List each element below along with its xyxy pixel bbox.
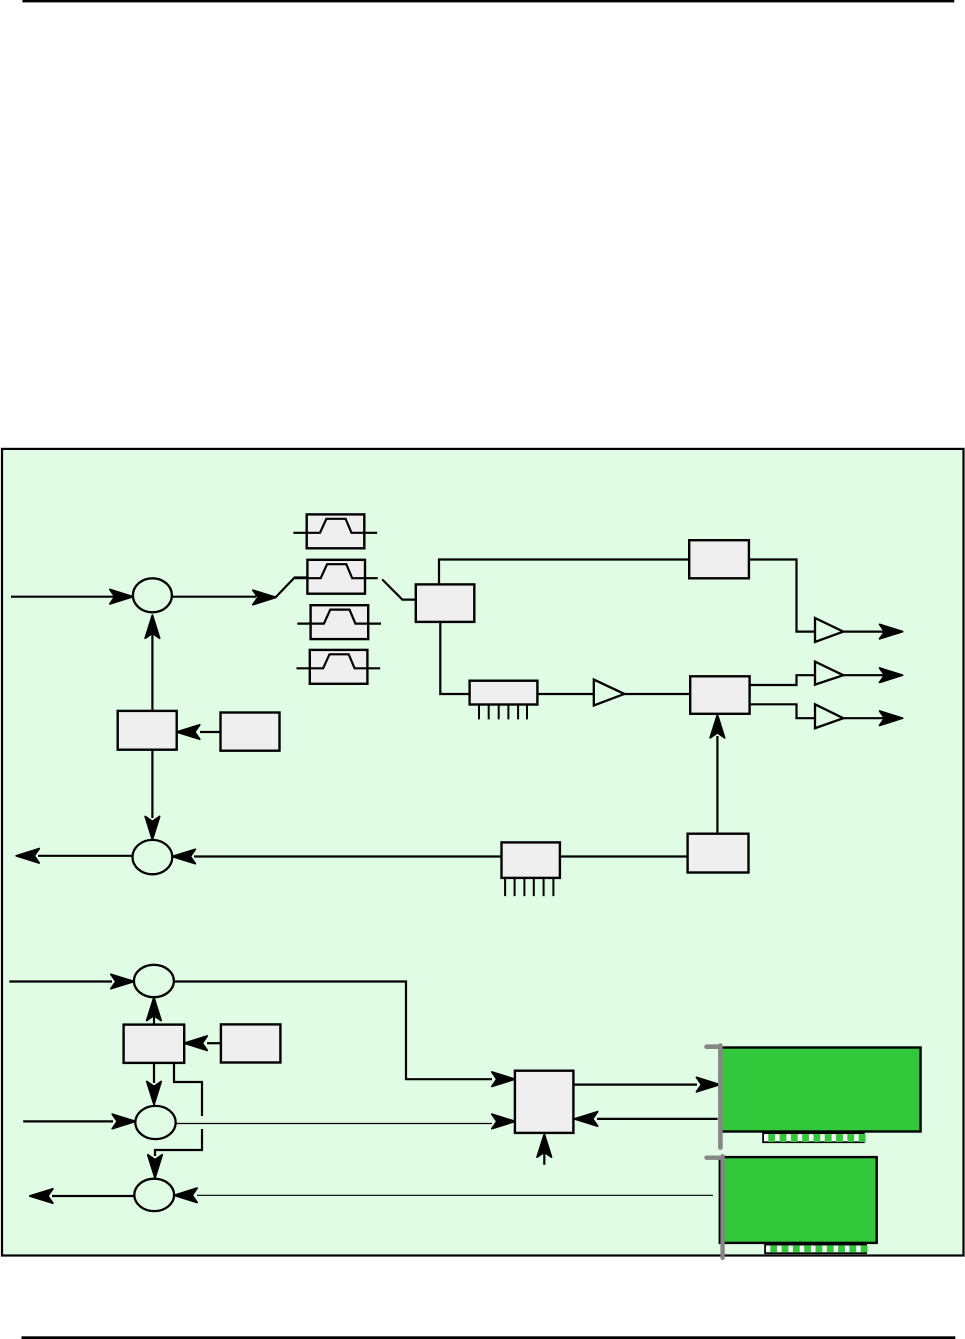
wire DDS U5 to block U6 [560,855,688,857]
wire oscillator O1 up to mixer 1 [151,634,153,711]
DDS U5 pins [505,878,553,896]
wire amp A1 output [843,630,884,632]
arrowhead mixer 2 output left tip [16,849,39,863]
card 1 bracket [707,1046,721,1148]
header rule [22,0,954,2]
arrowhead up into switch box bottom [537,1134,551,1157]
mixer 5 circle [134,1179,174,1211]
DDS U5 box [502,842,560,878]
wire ADC bottom to DDS U3 [440,622,469,694]
arrowhead up into mixer 1 bottom [145,615,159,638]
amp A4 triangle [594,680,625,706]
ADC box [416,584,475,622]
mixer 2 circle [133,840,173,874]
wire box B4 to oscillator O2 [207,1042,221,1044]
wire mixer 4 thin output to switch box [176,1123,492,1125]
card 1 body [721,1048,921,1132]
wire card 1 return to switch box [597,1118,718,1120]
wire amp A4 to block U4 [624,693,690,695]
panel background box [2,449,964,1256]
box B4 [221,1024,281,1062]
arrowhead into mixer 5 right [174,1188,197,1202]
wire switch arm to filter F2 [276,578,308,598]
wire stub arrow below switch box [543,1140,545,1165]
box B2 [221,713,280,751]
wire mixer 2 output left [38,855,133,857]
arrowhead into mixer 3 left [111,974,134,988]
wire oscillator O2 up to mixer 3 [153,1000,155,1025]
arrowhead into mixer 4 left [112,1114,135,1128]
arrowhead into oscillator O2 from box B4 [184,1036,207,1050]
arrowhead up into block U4 bottom [710,715,724,738]
wire card 2 thin line to mixer 5 [197,1194,713,1196]
wire RF input to mixer 1 [11,596,115,598]
wire block U6 up to block U4 [716,736,718,834]
wire bypass oscillator O2 to mixer 5 upper part [174,1063,202,1116]
arrowhead into switch box upper left [492,1072,515,1086]
arrowhead A3 output tip [880,711,903,725]
DDS U3 box [470,681,538,705]
wire DDS U3 to amp A4 [537,693,593,695]
amp A2 triangle [815,662,843,685]
wire mixer 1 output to switch pivot [172,596,256,598]
mixer 3 circle [134,965,174,997]
block U2 box [689,540,749,578]
arrowhead into oscillator O1 from box B2 [177,725,200,739]
wire switch box output to card 1 [573,1083,697,1085]
amp A1 triangle [815,618,843,642]
footer rule [22,1336,956,1339]
amp A3 triangle [815,704,843,728]
block U6 box [688,834,749,873]
wire filter F2 output switch arm to ADC [382,579,416,599]
arrowhead A1 output tip [880,624,903,638]
filter F4 [297,650,381,684]
card 2 edge connector [765,1245,866,1254]
arrowhead down into mixer 4 top [147,1082,161,1105]
block U4 box [690,676,749,714]
wire amp A2 output [843,674,884,676]
card 1 edge connector [763,1133,864,1142]
mixer 4 circle [135,1106,175,1139]
wire mixer 5 output left [52,1195,134,1197]
DDS U3 pins [479,705,527,720]
wire block U2 output to amp A1 [749,560,815,632]
card 2 body [720,1157,877,1243]
switch box [515,1071,574,1133]
wire box B2 to oscillator O1 [200,731,221,733]
wire block U4 upper output to amp A2 [749,675,815,685]
oscillator O2 box [124,1025,185,1063]
arrowhead into mixer 1 left [110,590,133,604]
arrowhead mixer 5 output left tip [30,1189,53,1203]
filter F1 [293,514,377,548]
mixer 1 circle [133,578,172,612]
wire amp A3 output [843,717,884,719]
wire block U4 lower output to amp A3 [749,704,815,718]
arrowhead down into mixer 2 top [145,817,159,840]
arrowhead down into mixer 5 top [148,1155,162,1178]
wire oscillator O1 down to mixer 2 [151,750,153,818]
arrowhead return into switch box right [575,1112,598,1126]
wire DDS U5 to mixer 2 [194,855,502,857]
filter F2 [294,560,378,594]
card 2 bracket [707,1156,723,1258]
arrowhead switch box output into card 1 [697,1077,720,1091]
filter F3 [297,605,381,639]
arrowhead A2 output tip [880,668,903,682]
arrowhead switch pivot mixer 1 output [253,590,276,604]
wire mixer 3 output to switch box [174,982,492,1080]
wire ADC top to block U2 [439,560,689,585]
arrowhead up into mixer 3 bottom [147,998,161,1021]
oscillator O1 box [118,711,177,750]
wire oscillator O2 down to mixer 4 [153,1063,155,1083]
arrowhead into switch box lower left [492,1114,515,1128]
wire RX2 input to mixer 4 [23,1120,113,1122]
arrowhead into mixer 2 right [172,849,195,863]
wire RX input to mixer 3 [9,980,112,982]
wire bypass lower part [155,1129,202,1156]
